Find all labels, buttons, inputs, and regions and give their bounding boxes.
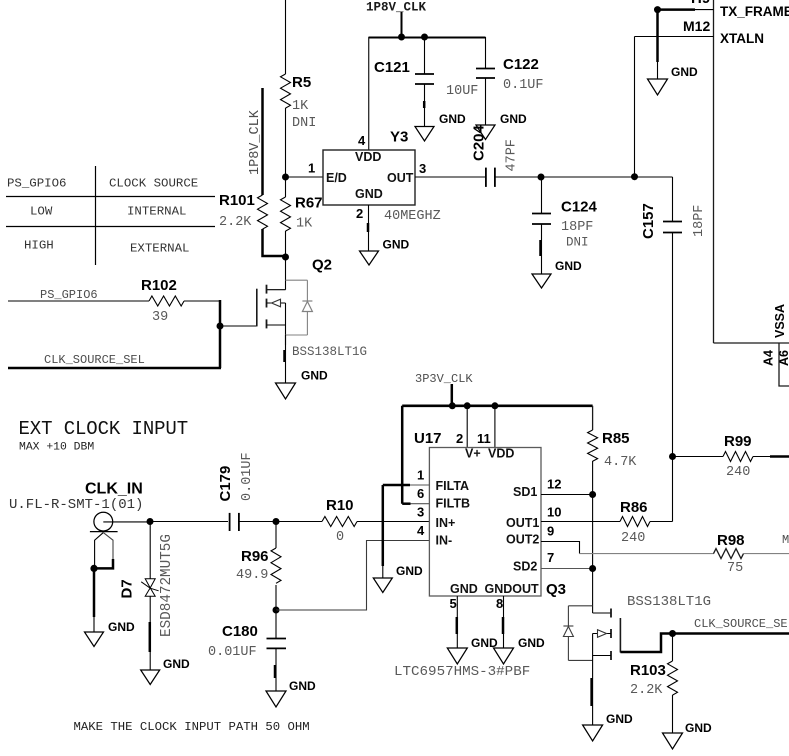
capacitor C121: [374, 37, 478, 127]
svg-text:ESD8472MUT5G: ESD8472MUT5G: [159, 534, 175, 637]
wire R5 to node A: [285, 108, 287, 177]
node J junction: [589, 491, 596, 498]
ground Q3: [583, 712, 633, 741]
node G junction: [147, 518, 154, 525]
junction rail-V+: [464, 402, 471, 409]
svg-text:GND: GND: [671, 65, 698, 79]
wire R98 right: [744, 553, 789, 555]
svg-text:BSS138LT1G: BSS138LT1G: [627, 594, 711, 610]
svg-text:1P8V_CLK: 1P8V_CLK: [366, 1, 427, 15]
wire Q2 source to ground: [285, 335, 286, 383]
svg-text:0.01UF: 0.01UF: [208, 645, 257, 660]
svg-text:C122: C122: [503, 56, 539, 73]
svg-text:4: 4: [358, 133, 366, 148]
svg-text:75: 75: [727, 561, 743, 576]
svg-text:GND: GND: [500, 112, 527, 126]
svg-text:MAX +10 DBM: MAX +10 DBM: [19, 442, 94, 454]
svg-text:11: 11: [477, 431, 491, 446]
svg-text:R102: R102: [141, 277, 177, 294]
svg-text:HIGH: HIGH: [24, 239, 54, 253]
resistor R86: [620, 499, 650, 546]
svg-text:GNDOUT: GNDOUT: [485, 582, 540, 596]
resistor R96: [236, 522, 281, 584]
svg-text:GND: GND: [108, 620, 135, 634]
wire U17 pin 2 V+: [466, 406, 468, 448]
svg-text:0.1UF: 0.1UF: [503, 78, 544, 93]
svg-text:3: 3: [419, 161, 426, 176]
connector CLK_IN symbol: [90, 512, 118, 572]
svg-text:E/D: E/D: [326, 171, 347, 185]
ground D7: [141, 657, 190, 685]
svg-text:5: 5: [450, 596, 457, 611]
svg-text:EXT CLOCK INPUT: EXT CLOCK INPUT: [19, 418, 189, 440]
wire node F down to OUT1 junction: [672, 457, 674, 522]
svg-text:H9: H9: [691, 0, 710, 7]
node I junction: [273, 607, 280, 614]
svg-text:C124: C124: [561, 199, 598, 216]
svg-text:C179: C179: [217, 466, 234, 502]
svg-text:R10: R10: [326, 497, 354, 514]
svg-text:Q3: Q3: [546, 581, 566, 598]
IC U? left edge: [713, 0, 715, 343]
svg-text:R99: R99: [724, 433, 752, 450]
wire U17 pin 8 GNDOUT: [502, 596, 505, 648]
wire top feed into R5: [285, 0, 287, 74]
svg-text:1: 1: [417, 468, 424, 483]
Q3 body diode: [563, 606, 573, 661]
junction rail-VDD: [491, 402, 498, 409]
wire R96 to node I: [275, 585, 277, 610]
capacitor C180: [208, 610, 286, 691]
resistor R10: [276, 497, 357, 545]
svg-text:1K: 1K: [292, 99, 309, 114]
svg-text:3P3V_CLK: 3P3V_CLK: [415, 372, 473, 386]
svg-text:VSSA: VSSA: [773, 304, 787, 338]
svg-text:IN-: IN-: [436, 534, 453, 548]
svg-text:INTERNAL: INTERNAL: [127, 205, 187, 219]
resistor R5: [281, 74, 317, 131]
wire Q3 gate to node L: [620, 634, 672, 653]
ground C124: [532, 259, 582, 288]
ground R103: [663, 721, 713, 749]
svg-text:49.9: 49.9: [236, 568, 268, 583]
IC U? bottom edge: [714, 342, 789, 344]
wire FILTB to U17 pin 6: [402, 502, 410, 505]
transistor Q2: [257, 257, 332, 346]
svg-text:OUT2: OUT2: [506, 533, 539, 547]
svg-text:GND: GND: [439, 112, 466, 126]
wire node K to Q3 drain: [592, 569, 594, 614]
svg-text:1K: 1K: [296, 217, 313, 232]
wire Y3 GND pin 2: [356, 205, 369, 251]
svg-text:PS_GPIO6: PS_GPIO6: [7, 177, 67, 191]
ground TX_FRAME: [648, 65, 699, 95]
ground U17 pin 5: [447, 636, 498, 664]
table clock source: [6, 166, 215, 265]
svg-text:GND: GND: [606, 712, 633, 726]
wire OUT2 to R98: [580, 553, 715, 555]
svg-text:2.2K: 2.2K: [630, 683, 663, 698]
pin M12 XTALN: [635, 18, 765, 46]
wire Y3 OUT pin 3 to C204: [415, 161, 486, 177]
wire PS_GPIO6 to R102: [8, 300, 149, 302]
svg-text:C204: C204: [471, 124, 488, 161]
svg-text:EXTERNAL: EXTERNAL: [130, 242, 190, 256]
svg-text:U.FL-R-SMT-1(01): U.FL-R-SMT-1(01): [9, 497, 143, 513]
wire R101 to node B: [263, 229, 286, 256]
svg-text:GND: GND: [289, 679, 316, 693]
capacitor C122: [476, 37, 544, 125]
svg-text:CLK_SOURCE_SEL: CLK_SOURCE_SEL: [694, 617, 789, 631]
svg-text:PS_GPIO6: PS_GPIO6: [40, 288, 98, 302]
svg-text:240: 240: [621, 531, 645, 546]
node A junction: [282, 174, 289, 181]
node K junction: [589, 565, 596, 572]
net CLK_SOURCE_SEL wire: [8, 353, 221, 368]
op-amp U17 box: [414, 430, 541, 596]
net 1P8V_CLK top label and stub: [366, 1, 427, 38]
capacitor C157: [640, 177, 707, 239]
svg-text:R85: R85: [602, 430, 630, 447]
wire node G to D7: [149, 522, 151, 579]
wire connector pin to node G: [103, 521, 150, 523]
svg-text:C157: C157: [640, 203, 657, 239]
ground C122: [476, 112, 527, 140]
wire rail left to FILTB: [401, 406, 404, 504]
svg-text:0.01UF: 0.01UF: [240, 452, 255, 501]
svg-text:3: 3: [417, 505, 424, 520]
resistor R102: [141, 277, 184, 325]
ground connector: [85, 620, 136, 647]
svg-text:7: 7: [547, 550, 554, 565]
svg-text:C121: C121: [374, 59, 410, 76]
capacitor C204: [471, 124, 520, 186]
net CLK_SOURCE_SEL right wire: [673, 617, 789, 634]
node C junction: [217, 323, 224, 330]
svg-text:GND: GND: [450, 582, 478, 596]
resistor R67: [281, 195, 323, 232]
ground FILTA: [373, 564, 423, 593]
wire node I to U17 IN- pin 4: [276, 541, 429, 611]
svg-text:MAKE THE CLOCK INPUT PATH 50 O: MAKE THE CLOCK INPUT PATH 50 OHM: [74, 720, 310, 734]
svg-text:39: 39: [152, 310, 168, 325]
svg-text:18PF: 18PF: [692, 205, 707, 237]
svg-text:BSS138LT1G: BSS138LT1G: [292, 345, 367, 359]
node B junction: [282, 254, 289, 261]
svg-text:10UF: 10UF: [446, 84, 478, 99]
svg-text:GND: GND: [396, 564, 423, 578]
svg-text:12: 12: [547, 477, 561, 492]
wire connector shield to ground: [93, 568, 96, 632]
svg-text:47PF: 47PF: [505, 139, 520, 171]
svg-text:GND: GND: [383, 238, 410, 252]
svg-text:2: 2: [356, 206, 363, 221]
svg-text:CLK_IN: CLK_IN: [85, 481, 143, 498]
svg-text:DNI: DNI: [292, 116, 316, 131]
wire R67 to node B: [285, 231, 287, 257]
wire pin A4: [779, 343, 789, 386]
svg-text:2.2K: 2.2K: [219, 215, 252, 230]
wire Q3 source to ground: [592, 634, 593, 726]
svg-text:LOW: LOW: [30, 205, 53, 219]
wire R86 to node F: [650, 521, 673, 523]
node L junction: [669, 630, 676, 637]
resistor R101: [219, 192, 268, 230]
resistor R103: [630, 634, 678, 699]
svg-text:LTC6957HMS-3#PBF: LTC6957HMS-3#PBF: [394, 664, 530, 680]
capacitor C124: [532, 177, 598, 274]
svg-text:SD1: SD1: [513, 485, 537, 499]
svg-text:XTALN: XTALN: [720, 31, 764, 46]
svg-text:8: 8: [496, 596, 503, 611]
wire node D to node E: [541, 176, 635, 178]
svg-text:R103: R103: [630, 662, 666, 679]
svg-text:DNI: DNI: [566, 236, 589, 250]
wire node E to C157 branch: [635, 176, 673, 178]
svg-text:R98: R98: [717, 532, 745, 549]
wire node A to R67: [285, 177, 287, 197]
svg-text:GND: GND: [301, 369, 328, 383]
svg-text:R101: R101: [219, 192, 255, 209]
ground Y3: [360, 238, 410, 266]
wire R102 to node C: [184, 300, 219, 302]
svg-text:A4: A4: [762, 350, 776, 366]
wire 1P8V rail: [369, 37, 486, 39]
junction rail-stub: [449, 402, 456, 409]
svg-text:FILTA: FILTA: [436, 479, 470, 493]
svg-text:SD2: SD2: [513, 560, 537, 574]
wire U17 pin 5 GND: [456, 596, 459, 648]
wire U17 pin 12 SD1: [541, 494, 593, 496]
wire TX_FRAME to ground: [654, 6, 695, 79]
svg-text:OUT: OUT: [387, 171, 414, 185]
ground C180: [266, 679, 316, 707]
oscillator Y3: [323, 129, 441, 225]
svg-text:V+: V+: [465, 447, 481, 461]
pin H9 TX_FRAME: [691, 0, 789, 19]
wire FILTA pin 1 to ground: [383, 485, 430, 578]
svg-text:GND: GND: [163, 657, 190, 671]
svg-text:GND: GND: [685, 721, 712, 735]
wire U17 pin 7 SD2: [541, 568, 593, 570]
resistor R85: [588, 406, 638, 470]
wire R10 to U17 IN+ pin 3: [357, 521, 429, 523]
svg-text:4.7K: 4.7K: [604, 455, 637, 470]
svg-text:VDD: VDD: [488, 447, 514, 461]
wire XTALN down to node E: [634, 37, 636, 178]
svg-text:2: 2: [456, 431, 463, 446]
junction rail-stub: [398, 34, 405, 41]
svg-text:40MEGHZ: 40MEGHZ: [384, 209, 441, 224]
svg-text:C180: C180: [222, 623, 258, 640]
U17 pin numbers: [417, 431, 561, 611]
wire node A to Y3 E/D pin 1: [286, 176, 324, 178]
svg-text:4: 4: [417, 523, 425, 538]
svg-text:R96: R96: [241, 548, 269, 565]
svg-text:Y3: Y3: [390, 129, 408, 146]
wire 3P3V rail: [402, 404, 592, 407]
svg-text:10: 10: [547, 504, 561, 519]
svg-text:FILTB: FILTB: [436, 497, 470, 511]
svg-text:18PF: 18PF: [561, 220, 593, 235]
wire node J to node K: [592, 495, 594, 569]
wire R103 to ground: [672, 695, 674, 733]
svg-text:IN+: IN+: [436, 516, 456, 530]
wire rail to Y3 VDD pin 4: [368, 37, 370, 150]
svg-text:9: 9: [547, 523, 554, 538]
net 3P3V_CLK label and stub: [415, 372, 473, 406]
svg-text:6: 6: [417, 486, 424, 501]
diode D7 TVS: [119, 534, 176, 637]
resistor R98: [714, 532, 745, 576]
svg-text:GND: GND: [355, 187, 383, 201]
wire C179 to node H: [239, 521, 276, 523]
ground Q2: [276, 369, 329, 400]
wire node C vertical: [219, 300, 222, 368]
wire C204 to node D: [495, 176, 541, 178]
svg-text:CLK_SOURCE_SEL: CLK_SOURCE_SEL: [44, 353, 145, 367]
svg-text:U17: U17: [414, 430, 442, 447]
svg-text:240: 240: [726, 465, 750, 480]
svg-text:1: 1: [308, 161, 315, 176]
svg-text:TX_FRAME_N: TX_FRAME_N: [720, 4, 789, 19]
node H junction: [273, 518, 280, 525]
net 1P8V_CLK vertical stub: [248, 88, 263, 195]
node F junction: [669, 453, 676, 460]
resistor R99: [673, 433, 789, 480]
wire C157 to node F: [672, 233, 674, 457]
svg-text:R67: R67: [295, 195, 323, 212]
svg-text:MC: MC: [782, 533, 789, 547]
junction rail-C121: [421, 34, 428, 41]
svg-text:0: 0: [336, 530, 344, 545]
svg-text:M12: M12: [683, 18, 710, 34]
Q2 body diode: [302, 280, 312, 335]
transistor Q3: [546, 581, 620, 660]
node E junction: [631, 173, 638, 180]
ground C121: [415, 112, 466, 141]
wire R85 to node J: [592, 461, 594, 495]
wire D7 to ground: [149, 596, 151, 670]
svg-text:R86: R86: [620, 499, 648, 516]
wire node C to Q2 gate: [220, 325, 257, 327]
svg-text:Q2: Q2: [312, 257, 332, 274]
svg-text:1P8V_CLK: 1P8V_CLK: [248, 109, 263, 175]
svg-text:VDD: VDD: [355, 150, 381, 164]
svg-text:D7: D7: [119, 579, 136, 598]
svg-text:GND: GND: [555, 259, 582, 273]
node D junction: [538, 174, 545, 181]
wire U17 pin 11 VDD: [494, 406, 496, 448]
wire U17 pin 9 OUT2: [541, 542, 580, 554]
wire U17 pin 10 OUT1 to R86: [541, 521, 620, 523]
ground U17 pin 8: [494, 636, 546, 664]
svg-text:CLOCK SOURCE: CLOCK SOURCE: [109, 177, 198, 191]
svg-text:GND: GND: [518, 636, 545, 650]
svg-text:R5: R5: [292, 74, 311, 91]
svg-text:OUT1: OUT1: [506, 516, 539, 530]
capacitor C179: [150, 452, 255, 531]
